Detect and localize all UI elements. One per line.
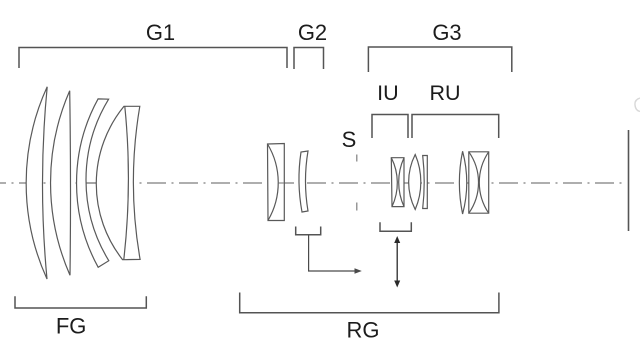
svg-text:S: S: [342, 127, 357, 152]
svg-text:FG: FG: [56, 314, 87, 339]
svg-text:IU: IU: [377, 81, 399, 105]
svg-text:G1: G1: [146, 20, 175, 45]
svg-text:G2: G2: [298, 20, 327, 45]
svg-text:G3: G3: [432, 20, 461, 45]
svg-text:RG: RG: [347, 318, 380, 343]
svg-text:RU: RU: [429, 81, 460, 105]
